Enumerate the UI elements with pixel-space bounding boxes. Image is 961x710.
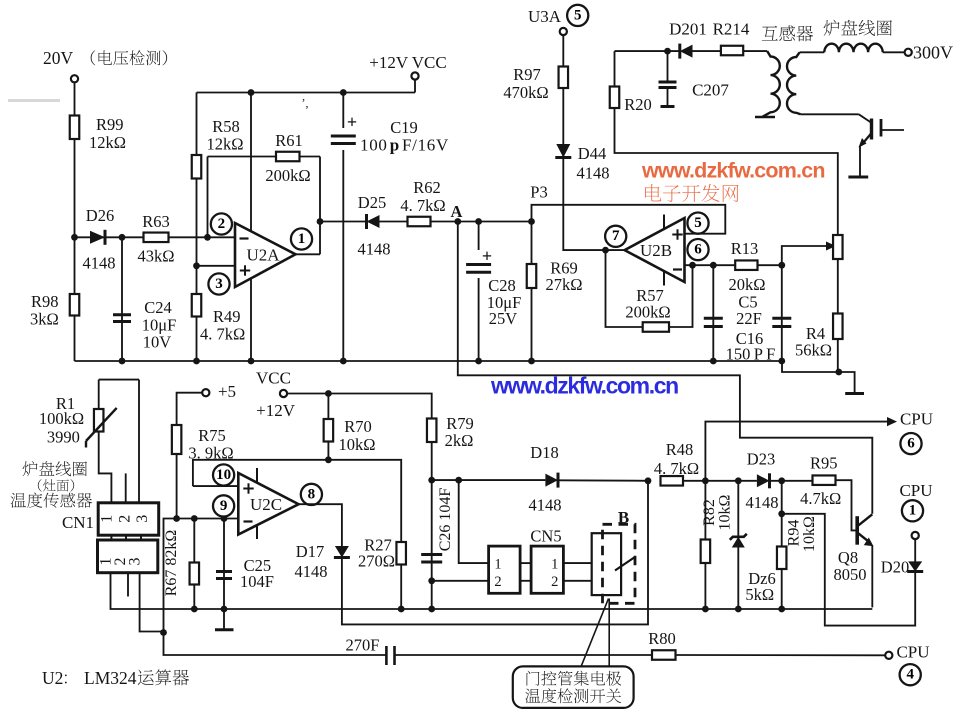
diode D18 [529,443,562,515]
transformer primary winding [755,25,813,117]
svg-text:D25: D25 [358,193,386,212]
svg-text:A: A [451,202,463,221]
watermark red line1 [641,159,825,183]
svg-text:4148: 4148 [529,496,562,515]
node A [451,202,463,225]
resistor R4 [795,314,843,360]
transistor IGBT [859,119,905,148]
wire R27 bottom [400,565,402,610]
wire CN5 pin2 link [432,580,489,582]
pin 6 [687,239,708,260]
node U2B pin7 [602,247,609,254]
node Dz6 top [735,477,742,484]
capacitor C28 [465,222,521,362]
svg-text:www.dzkfw.com.cn: www.dzkfw.com.cn [490,373,678,399]
wire inverting input row [75,236,235,238]
node rail C24 [119,358,126,365]
svg-text:1: 1 [298,231,306,247]
svg-text:D26: D26 [86,206,114,225]
wire CN5 to switch [563,563,591,581]
pin 8 [301,484,322,505]
node D17/R48 [645,477,652,484]
capacitor C24 [113,237,176,361]
svg-text:2: 2 [218,216,226,232]
wire R1 top link [99,380,139,503]
terminal CPU4 [885,643,929,662]
ground mid-rail [845,392,864,395]
diode D26 [83,206,116,273]
label CPU6 [900,410,933,429]
wire CN1 pin2 stub [125,473,127,502]
watermark red line2 [645,184,739,202]
resistor R57 [625,286,670,332]
svg-text:3: 3 [127,558,144,566]
wire CN1 pin3 lower link [140,573,164,632]
svg-text:1: 1 [98,515,115,523]
svg-text:270F: 270F [346,636,380,655]
transformer secondary winding [787,52,801,114]
connector CN5 left [489,546,520,593]
svg-text:10: 10 [216,467,231,483]
svg-text:4: 4 [906,667,914,683]
svg-text:9: 9 [220,498,228,514]
svg-text:R80: R80 [648,629,676,648]
transistor Q8 [834,514,874,584]
svg-text:D201: D201 [669,20,707,39]
wire D20 lower loop [782,514,916,626]
svg-text:2: 2 [494,574,501,590]
svg-text:4148: 4148 [577,164,610,183]
terminal VCC +12V [256,369,296,421]
resistor R95 [800,454,841,509]
svg-text:10kΩ: 10kΩ [717,494,734,530]
connector CN1 upper [62,503,159,535]
wire R48 to D23 to R95 [683,480,813,482]
diode D201 [669,20,707,59]
resistor R48 [654,440,699,486]
node U2A output [317,218,324,225]
power tick U2B top [663,215,665,230]
node R70 bottom [325,456,332,463]
svg-text:1: 1 [909,503,917,519]
diode D23 [746,450,779,513]
svg-text:4148: 4148 [295,562,328,581]
svg-text:R62: R62 [413,178,441,197]
svg-text:4. 7kΩ: 4. 7kΩ [200,325,245,344]
pin 1 CPU [902,500,923,521]
svg-text:+: + [482,246,492,266]
svg-text:43kΩ: 43kΩ [137,247,174,266]
wire hidden vertical behind U2A [250,93,252,362]
node C24 top [119,234,126,241]
wire U3A down to pin7 row [563,35,624,250]
wire D17 bottom to D18 node [342,481,648,625]
svg-text:R95: R95 [810,454,838,473]
main mid rail [75,361,855,393]
pin 2 [211,213,232,234]
svg-text:+12V: +12V [256,401,296,420]
wire D18 row [432,479,648,482]
svg-text:6: 6 [907,436,915,452]
node C207 top [664,48,671,55]
node R79/C26 [428,477,435,484]
op-amp U2A [235,223,296,287]
svg-text:10kΩ: 10kΩ [338,435,375,454]
resistor R69 [527,222,583,362]
svg-text:25V: 25V [489,309,518,328]
wire R61 feedback loop left [208,157,277,238]
pin 6 CPU [900,433,921,454]
wire top +12V rail [197,80,416,93]
wire U2C output to D17 [299,504,342,546]
svg-text:100kΩ: 100kΩ [39,409,84,428]
svg-text:R82: R82 [701,499,718,526]
pin 9 [213,495,234,516]
capacitor C207 [659,51,730,106]
svg-text:3kΩ: 3kΩ [30,310,59,329]
pin 4 CPU [900,664,921,685]
wire D201 row [615,50,768,52]
wire CN1 mating pins [111,535,141,540]
svg-text:4. 7kΩ: 4. 7kΩ [400,196,445,215]
svg-text:R99: R99 [96,115,124,134]
svg-text:R97: R97 [513,65,541,84]
svg-text:5kΩ: 5kΩ [745,585,774,604]
svg-text:6: 6 [694,242,702,258]
node R61 left / pin2 [204,234,211,241]
resistor R20 [610,87,652,115]
svg-text:CPU: CPU [900,410,933,429]
wire wiper arrow [782,242,836,266]
wire secondary top to coil [800,51,825,53]
resistor R97 [503,65,568,102]
terminal U3A [528,7,567,35]
wire R57 loop [606,250,693,327]
wire coil to 300V [883,51,905,53]
svg-text:R70: R70 [344,417,372,436]
svg-text:27kΩ: 27kΩ [545,275,582,294]
node gnd C25 [221,606,228,613]
resistor R13 [728,239,765,294]
svg-text:P3: P3 [530,183,547,202]
svg-text:B: B [618,508,629,527]
connector CN1 lower [98,540,158,573]
wire 20V input vertical [74,79,76,361]
resistor R79 [427,414,474,450]
node rail R49 [193,358,200,365]
svg-text:12kΩ: 12kΩ [89,133,126,152]
ground C25 [215,628,234,631]
node gnd C26 [428,606,435,613]
label CPU1 [899,481,932,500]
pin 5 U3A [567,5,588,26]
callout box switch note [513,666,634,708]
leader lines callout [581,599,609,667]
svg-text:R13: R13 [731,239,759,258]
node P3/R69 [528,218,535,225]
svg-text:R48: R48 [666,440,694,459]
svg-text:CPU: CPU [896,643,929,662]
op-amp U2C [238,473,298,535]
resistor R63 [137,212,174,266]
svg-text:R61: R61 [275,131,303,150]
node rail C5 [710,358,717,365]
node R82 top [702,477,709,484]
node rail C19 [340,358,347,365]
svg-text:CN5: CN5 [530,527,561,546]
node R94 mid [778,510,785,517]
svg-text:104F: 104F [240,572,274,591]
svg-text:56kΩ: 56kΩ [795,341,832,360]
svg-text:R98: R98 [31,292,59,311]
box B dashed [603,508,636,603]
svg-text:22F: 22F [736,309,762,328]
svg-text:10V: 10V [143,333,172,352]
svg-text:10kΩ: 10kΩ [801,516,818,552]
svg-text:470kΩ: 470kΩ [503,83,548,102]
svg-text:VCC: VCC [256,369,291,388]
label sensor [11,461,92,508]
capacitor C19 [330,93,449,362]
svg-text:4.7kΩ: 4.7kΩ [800,489,841,508]
resistor R99 [70,115,126,152]
svg-text:12kΩ: 12kΩ [206,135,243,154]
power tick U2C bottom [256,525,258,539]
svg-text:R49: R49 [213,307,241,326]
note U2 LM324 [42,668,189,688]
svg-text:LM324: LM324 [84,668,137,688]
svg-text:20kΩ: 20kΩ [728,275,765,294]
terminal +12V VCC [369,53,446,80]
node gnd R82 [702,606,709,613]
wire R61 right to output node [300,157,321,255]
svg-text:8050: 8050 [834,565,867,584]
svg-text:7: 7 [612,228,620,244]
svg-text:200kΩ: 200kΩ [265,166,310,185]
diode D44 [555,144,609,183]
svg-text:ʼ,: ʼ, [302,96,309,110]
terminal 20V [43,48,167,82]
svg-text:R214: R214 [713,20,750,39]
wire P3 jog and pin5 line [530,183,725,234]
wire Q8 emitter to ground rail [871,545,873,607]
svg-text:C24: C24 [144,298,172,317]
node pin9/CN1 [160,629,167,636]
resistor R61 [265,131,310,185]
node R70 top [325,390,332,397]
svg-text:www.dzkfw.com.cn: www.dzkfw.com.cn [641,159,825,183]
node C28 top [475,218,482,225]
svg-text:CN1: CN1 [62,513,94,532]
svg-text:8: 8 [308,486,316,502]
resistor R27 [358,536,406,571]
node top rail C19 [340,89,347,96]
terminal +5 [202,382,236,401]
wire secondary bottom to IGBT [801,114,872,122]
wire A node to Q8 collector [458,222,873,514]
power tick U2B bottom [663,271,665,286]
resistor R214 [713,20,750,56]
svg-text:3: 3 [134,515,151,523]
svg-text:4. 7kΩ: 4. 7kΩ [654,459,699,478]
wire pin9 row [164,519,239,633]
wire 270F R80 line [164,633,886,656]
svg-text:D18: D18 [530,443,558,462]
svg-text:1: 1 [494,557,501,573]
resistor R80 [648,629,676,660]
node R94 top [778,477,785,484]
pin 7 [605,226,626,247]
svg-text:5: 5 [694,215,702,231]
capacitor C26 [421,480,454,609]
wire CN5 pin1 drop [459,480,489,563]
wire pin6 row [685,264,782,266]
diode D25 [358,193,391,259]
svg-text:D23: D23 [747,450,775,469]
wire IGBT emitter to ground [859,146,861,176]
resistor R98 [30,292,79,329]
connector CN5 right [530,527,563,594]
node R75 bottom [173,515,180,522]
node R67 top [191,515,198,522]
node gnd R67 [191,606,198,613]
zener Dz6 [730,481,776,609]
svg-text:1: 1 [551,557,558,573]
svg-text:C207: C207 [692,81,729,100]
node rail C16 [778,358,785,365]
svg-text:R94: R94 [786,520,803,547]
ground IGBT [848,176,868,179]
svg-text:CPU: CPU [899,481,932,500]
svg-text:4148: 4148 [746,493,779,512]
wire CN5 mid links [520,563,531,581]
svg-text:R20: R20 [624,95,652,114]
wire CPU6 branch [705,417,897,481]
svg-text:D20: D20 [881,558,909,577]
node R13 right [778,262,785,269]
thermistor R1 [39,380,117,503]
pin 5 [687,213,708,234]
svg-text:5: 5 [574,7,582,23]
resistor R58 [192,93,244,266]
svg-text:300V: 300V [913,43,953,63]
svg-text:+5: +5 [218,382,236,401]
svg-text:U2C: U2C [250,495,282,514]
capacitor 270F [346,636,395,666]
diode D20 [881,558,923,577]
resistor R67 [163,519,199,610]
wire R95 to Q8 base [836,480,856,530]
resistor R94 [777,481,818,609]
terminal CPU1 [912,532,919,562]
thermal switch body [592,533,635,595]
wire output row to A [320,221,532,223]
wire +12V row [287,394,432,481]
pin 10 [213,464,234,485]
node gnd R27 [398,606,405,613]
svg-text:U3A: U3A [528,7,562,26]
svg-text:+12V VCC: +12V VCC [369,53,446,72]
pin 3 [208,273,229,294]
svg-text:4148: 4148 [83,254,116,273]
svg-text:200kΩ: 200kΩ [625,303,670,322]
node rail x251 [248,358,255,365]
node CN5 pin1 drop [455,477,462,484]
svg-text:3990: 3990 [47,428,80,447]
op-amp U2B [625,218,685,282]
svg-text:3: 3 [215,276,223,292]
svg-text:100 p F/16V: 100 p F/16V [360,136,449,155]
wire U2A output [296,253,321,255]
svg-text:270Ω: 270Ω [358,552,395,571]
resistor R49 [192,266,246,361]
wire +5 to R75 [177,393,202,519]
wire R20 elbow to pot line [615,51,838,372]
wire pin3 input [197,265,235,267]
svg-text:2: 2 [551,574,558,590]
node gnd R94 [778,606,785,613]
node gnd Dz6 [735,606,742,613]
node rail C28 [475,358,482,365]
resistor R70 [324,394,376,460]
svg-text:D17: D17 [296,542,324,561]
node 20V/D26 junction [71,234,78,241]
svg-text:20V: 20V [43,48,74,68]
node R57/pin6 [689,262,696,269]
svg-text:C19: C19 [390,118,418,137]
resistor R82 [701,481,734,609]
power tick U2C top [256,468,258,483]
scan artifact streak [8,99,60,102]
node U2A pin3 [193,262,200,269]
watermark blue [490,373,678,399]
node rail R4 [835,369,842,376]
diode D17 [295,542,350,581]
pin 1 [291,228,312,249]
resistor R62 [400,178,445,226]
node top rail x251 [248,89,255,96]
svg-text:C26 104F: C26 104F [437,488,454,552]
capacitor C16 [726,265,792,363]
svg-text:R75: R75 [198,426,226,445]
resistor R75 [172,425,234,463]
svg-text:D44: D44 [578,144,606,163]
stray mark [302,96,309,110]
wire pin10 row [193,460,401,542]
svg-text:U2: U2 [42,668,63,688]
svg-text:150 P F: 150 P F [726,345,776,364]
capacitor C5 [704,265,762,361]
wire CN1 pin2 lower stub [127,573,129,597]
svg-text:4148: 4148 [358,240,391,259]
node C25 top [221,515,228,522]
svg-text:2: 2 [116,515,133,523]
node rail R69 [528,358,535,365]
ground rail bottom [111,573,873,609]
svg-text:U2A: U2A [246,246,280,265]
svg-text:R58: R58 [212,117,240,136]
inductor cooker coil [824,20,892,53]
capacitor C25 [216,519,274,630]
svg-text:R67 82kΩ: R67 82kΩ [163,530,180,597]
svg-text:+: + [347,112,357,132]
potentiometer body [833,235,843,259]
terminal 300V [905,43,953,63]
node CN5 pin2 / C26 [428,577,435,584]
svg-text:U2B: U2B [640,241,672,260]
svg-text:R63: R63 [142,212,170,231]
svg-text:2kΩ: 2kΩ [445,431,474,450]
